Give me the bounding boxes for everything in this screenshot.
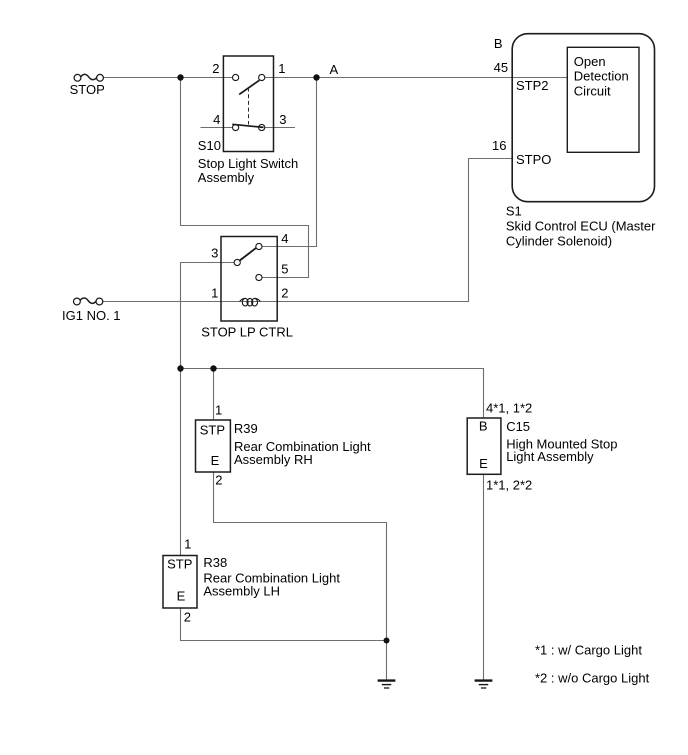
svg-text:1*1, 2*2: 1*1, 2*2 bbox=[486, 477, 532, 492]
svg-text:3: 3 bbox=[279, 112, 286, 127]
svg-text:16: 16 bbox=[492, 138, 506, 153]
svg-text:Open: Open bbox=[574, 54, 606, 69]
open detection circuit box U1 bbox=[567, 47, 639, 152]
svg-text:1: 1 bbox=[211, 286, 218, 301]
S10 pin 1 contact bbox=[259, 74, 265, 80]
svg-text:S10: S10 bbox=[198, 138, 221, 153]
svg-text:R38: R38 bbox=[203, 555, 227, 570]
svg-text:Cylinder Solenoid): Cylinder Solenoid) bbox=[506, 234, 612, 249]
svg-text:1: 1 bbox=[278, 61, 285, 76]
S10 upper switch arm (open) bbox=[239, 80, 259, 94]
connector R39 box bbox=[196, 420, 231, 472]
svg-text:B: B bbox=[494, 36, 503, 51]
svg-text:5: 5 bbox=[281, 262, 288, 277]
svg-text:*1 : w/ Cargo Light: *1 : w/ Cargo Light bbox=[535, 642, 642, 657]
svg-text:4: 4 bbox=[281, 231, 288, 246]
svg-text:2: 2 bbox=[184, 609, 191, 624]
svg-text:*2 : w/o Cargo Light: *2 : w/o Cargo Light bbox=[535, 670, 650, 685]
svg-text:Assembly: Assembly bbox=[198, 170, 255, 185]
svg-text:A: A bbox=[330, 62, 339, 77]
relay pin 3 contact bbox=[234, 259, 240, 265]
switch S10 box bbox=[223, 56, 273, 152]
junction node bus R39 bbox=[210, 365, 216, 371]
junction node bus left bbox=[177, 365, 183, 371]
connector C15 box bbox=[467, 418, 501, 474]
S10 lower switch arm (closed) bbox=[232, 124, 263, 127]
svg-text:Assembly LH: Assembly LH bbox=[203, 584, 280, 599]
wire: relay pin 3 to ground bus bbox=[181, 263, 484, 419]
wire: C15 pin E to ground bbox=[483, 475, 485, 681]
S10 pin 3 contact bbox=[259, 124, 265, 130]
svg-text:B: B bbox=[479, 419, 488, 434]
svg-text:2: 2 bbox=[215, 473, 222, 488]
svg-text:R39: R39 bbox=[234, 421, 258, 436]
svg-text:Stop Light Switch: Stop Light Switch bbox=[198, 156, 298, 171]
svg-text:C15: C15 bbox=[506, 419, 530, 434]
svg-text:3: 3 bbox=[211, 246, 218, 261]
svg-text:Assembly RH: Assembly RH bbox=[234, 452, 313, 467]
svg-text:STP2: STP2 bbox=[516, 78, 549, 93]
svg-text:S1: S1 bbox=[506, 204, 522, 219]
wire: bus drop to R39 pin 1 bbox=[213, 369, 215, 421]
wire: S10 lower contact stubs bbox=[201, 127, 296, 129]
svg-text:45: 45 bbox=[494, 60, 508, 75]
svg-text:Skid Control ECU (Master: Skid Control ECU (Master bbox=[506, 218, 656, 233]
svg-text:2: 2 bbox=[212, 61, 219, 76]
svg-text:1: 1 bbox=[215, 403, 222, 418]
svg-text:E: E bbox=[177, 588, 186, 603]
svg-text:E: E bbox=[479, 456, 488, 471]
junction node grounds join bbox=[384, 638, 390, 644]
svg-text:E: E bbox=[211, 453, 220, 468]
relay coil bbox=[240, 298, 261, 306]
svg-text:STOP LP CTRL: STOP LP CTRL bbox=[201, 325, 293, 340]
relay STOP LP CTRL box bbox=[221, 237, 277, 322]
svg-text:Circuit: Circuit bbox=[574, 83, 611, 98]
svg-text:IG1 NO. 1: IG1 NO. 1 bbox=[62, 308, 121, 323]
svg-text:1: 1 bbox=[184, 536, 191, 551]
svg-text:STP: STP bbox=[167, 557, 192, 572]
wire: bus drop to R38 pin 1 bbox=[180, 369, 182, 556]
junction node A at x316.7 bbox=[313, 74, 319, 80]
wire: R38 pin 2 to ground bbox=[181, 608, 387, 680]
svg-text:Detection: Detection bbox=[574, 69, 629, 84]
S10 pin 2 contact bbox=[233, 74, 239, 80]
ground symbol right bbox=[475, 681, 493, 688]
fuse IG1 NO. 1 bbox=[74, 298, 103, 305]
wire: node A branch to relay pin 4 bbox=[262, 78, 317, 247]
svg-text:STP: STP bbox=[200, 423, 225, 438]
wire: branch from node to relay pin 5 bbox=[181, 78, 309, 278]
S10 linkage dashed line bbox=[248, 88, 250, 125]
svg-text:2: 2 bbox=[281, 286, 288, 301]
relay switch arm bbox=[240, 248, 257, 261]
relay pin 5 contact bbox=[256, 274, 262, 280]
junction node on STOP wire at x180 bbox=[177, 74, 183, 80]
svg-text:Light Assembly: Light Assembly bbox=[506, 449, 594, 464]
svg-text:4*1, 1*2: 4*1, 1*2 bbox=[486, 400, 532, 415]
relay pin 4 contact bbox=[256, 243, 262, 249]
svg-text:4: 4 bbox=[213, 112, 220, 127]
connector R38 box bbox=[163, 556, 197, 609]
wire: R39 pin 2 to ground junction bbox=[214, 472, 387, 641]
svg-text:STPO: STPO bbox=[516, 152, 551, 167]
wire: IG1 NO.1 through relay coil to STPO bbox=[103, 159, 512, 302]
fuse STOP bbox=[74, 74, 103, 81]
wire: STOP feed to Open Detection Circuit bbox=[103, 77, 567, 79]
ECU S1 rounded box bbox=[512, 34, 654, 202]
svg-text:STOP: STOP bbox=[70, 82, 105, 97]
ground symbol left bbox=[378, 681, 396, 688]
S10 pin 4 contact bbox=[233, 124, 239, 130]
